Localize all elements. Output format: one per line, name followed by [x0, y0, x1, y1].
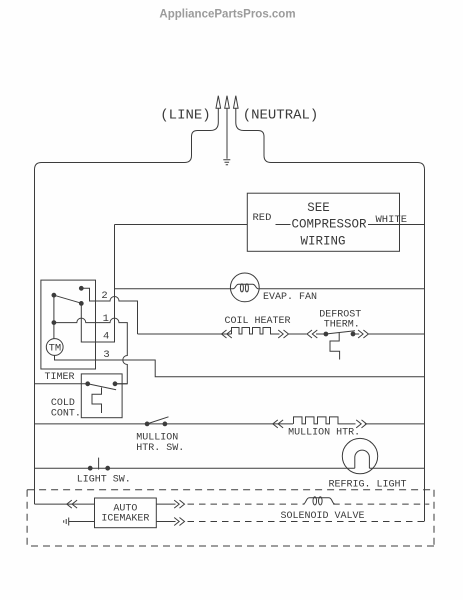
wire light line	[35, 467, 425, 469]
wire 2 from timer t2	[81, 288, 137, 334]
svg-text:3: 3	[103, 349, 109, 361]
svg-text:MULLION HTR.: MULLION HTR.	[288, 427, 360, 438]
dashed icemaker enclosure top edge	[27, 489, 434, 491]
svg-text:SEE: SEE	[307, 201, 330, 215]
dashed icemaker enclosure left edge	[26, 490, 28, 546]
compressor box	[247, 193, 399, 251]
evap fan motor circle	[230, 273, 259, 302]
svg-text:TM: TM	[49, 343, 62, 355]
wire 3 from timer motor	[55, 355, 425, 377]
svg-text:EVAP. FAN: EVAP. FAN	[263, 292, 317, 303]
defrost therm switch arm	[326, 331, 355, 334]
wire white segment inside box	[368, 224, 400, 226]
timer terminal dot common	[52, 293, 56, 297]
connector chevrons icemaker feed	[67, 500, 77, 508]
light switch dots	[88, 466, 92, 470]
dashed wire solenoid to right edge	[333, 503, 429, 505]
arrow neutral-in right	[234, 96, 239, 123]
svg-text:COLD: COLD	[51, 398, 75, 409]
svg-text:LIGHT SW.: LIGHT SW.	[77, 475, 131, 486]
svg-text:HTR. SW.: HTR. SW.	[136, 443, 184, 454]
mullion heater element	[294, 417, 356, 424]
svg-text:TIMER: TIMER	[45, 372, 75, 383]
svg-text:CONT.: CONT.	[51, 408, 81, 419]
wire left bus to cold control	[35, 383, 88, 385]
dashed icemaker enclosure bottom edge	[27, 545, 434, 547]
svg-text:1: 1	[103, 313, 109, 325]
wire 1 from timer junction	[54, 318, 127, 384]
svg-text:MULLION: MULLION	[136, 432, 178, 443]
cold control terminal dots	[86, 382, 90, 386]
wire coil heater line	[138, 333, 232, 335]
svg-text:SOLENOID VALVE: SOLENOID VALVE	[281, 511, 365, 522]
evap fan coil loops	[233, 284, 258, 289]
icemaker ground symbol	[64, 518, 69, 526]
refrig light filament arch	[355, 450, 370, 468]
wire icemaker bottom exit	[156, 521, 175, 523]
timer terminal dot t4	[79, 302, 83, 306]
solenoid valve coil	[303, 498, 335, 504]
wire evap fan line	[115, 288, 425, 290]
dashed wire to solenoid valve	[188, 503, 305, 505]
timer motor TM circle	[46, 339, 63, 356]
svg-text:4: 4	[103, 331, 109, 343]
wire compressor white line	[400, 224, 425, 226]
connector chevrons right of coil heater	[278, 330, 288, 338]
wire cold control to wire1 leg	[115, 383, 127, 385]
defrost therm sensing element	[330, 333, 340, 360]
coil heater element	[232, 328, 280, 335]
wire NEUTRAL entry to top edge	[236, 123, 425, 170]
wire defrost to right bus	[368, 333, 424, 335]
cold control switch arm	[88, 384, 116, 390]
arrow line-in left	[216, 96, 221, 123]
connector chevrons left of coil heater	[222, 330, 232, 338]
svg-text:(LINE): (LINE)	[160, 108, 210, 124]
mullion switch arm	[147, 417, 168, 424]
wire ground to icemaker	[69, 521, 95, 523]
arrow ground middle	[225, 96, 230, 159]
connector chevrons left of defrost therm	[307, 330, 317, 338]
timer junction dot t1	[52, 321, 56, 325]
wire 4 from timer t4	[81, 225, 114, 343]
light switch actuator	[98, 458, 100, 470]
wire red segment inside box	[276, 224, 291, 226]
svg-text:2: 2	[101, 290, 107, 302]
icemaker box	[95, 498, 157, 528]
svg-text:COMPRESSOR: COMPRESSOR	[291, 218, 367, 232]
wire left bus	[34, 170, 36, 505]
wire compressor red line	[115, 225, 248, 289]
wire between defrost dots	[316, 333, 359, 335]
cold control sensing element	[92, 388, 102, 414]
timer switch arm	[54, 295, 80, 303]
connector chevrons right of mullion heater	[356, 420, 366, 428]
dashed wire bottom exit to right edge	[188, 521, 425, 523]
dashed icemaker enclosure right edge	[433, 490, 435, 546]
svg-text:(NEUTRAL): (NEUTRAL)	[243, 108, 319, 124]
refrig light bulb circle	[342, 438, 377, 473]
ground symbol	[223, 160, 230, 165]
cold control box	[81, 374, 122, 418]
wire right bus	[424, 170, 426, 522]
wire to defrost therm	[289, 333, 307, 335]
wire timer common to junction	[53, 295, 55, 339]
wire left bus to icemaker	[35, 503, 95, 505]
wire mullion heater switch line	[35, 423, 294, 425]
svg-text:RED: RED	[253, 212, 272, 224]
connector chevrons icemaker bottom exit	[174, 518, 184, 526]
svg-text:WIRING: WIRING	[300, 235, 345, 249]
mullion switch dots	[145, 422, 149, 426]
svg-text:THERM.: THERM.	[324, 320, 360, 331]
svg-text:ICEMAKER: ICEMAKER	[101, 514, 149, 525]
defrost therm terminal dots	[324, 332, 328, 336]
svg-text:DEFROST: DEFROST	[319, 309, 361, 320]
svg-text:COIL HEATER: COIL HEATER	[225, 316, 291, 327]
timer box	[41, 280, 96, 369]
connector chevrons left of mullion heater	[273, 420, 283, 428]
timer terminal dot t2	[79, 286, 83, 290]
connector chevrons right of defrost therm	[358, 330, 368, 338]
connector chevrons icemaker top exit	[174, 500, 184, 508]
wire icemaker top exit	[156, 503, 175, 505]
svg-text:AppliancePartsPros.com: AppliancePartsPros.com	[159, 9, 295, 21]
wire mullion heater to right bus	[365, 423, 425, 425]
svg-text:REFRIG. LIGHT: REFRIG. LIGHT	[329, 480, 407, 491]
wire LINE entry to top edge	[35, 123, 219, 170]
